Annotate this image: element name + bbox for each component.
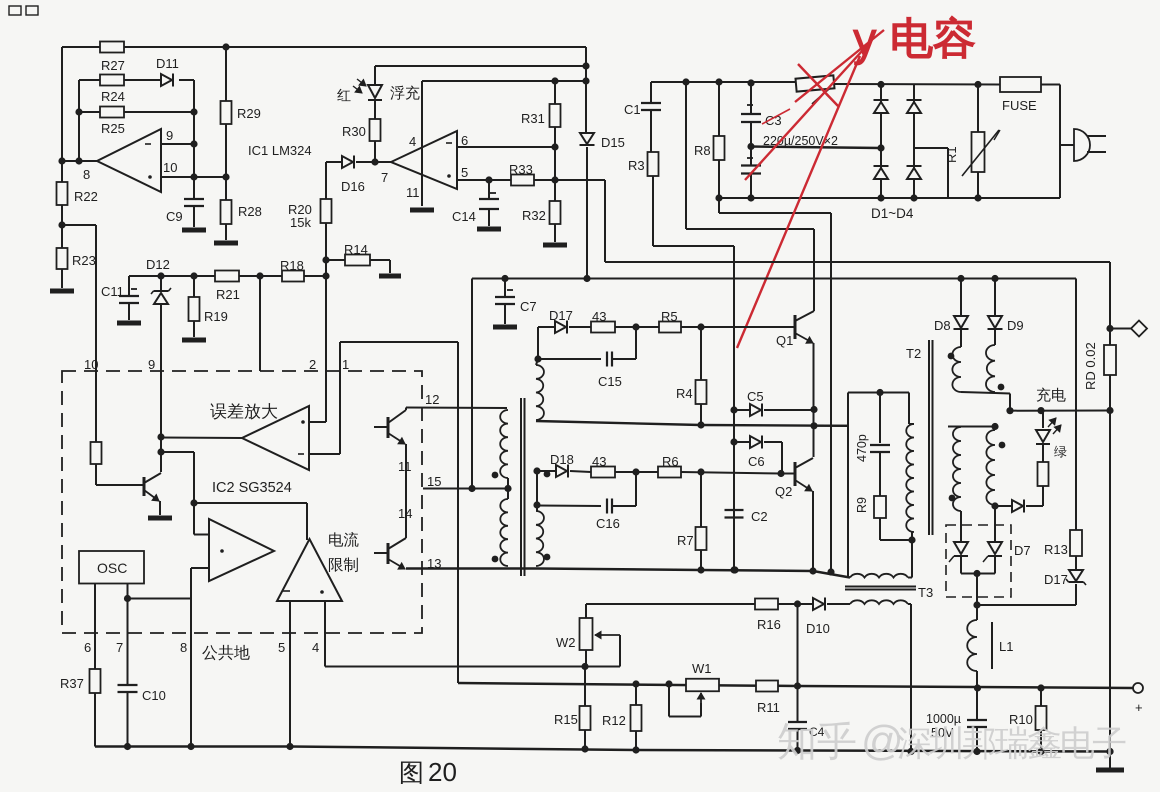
svg-text:C10: C10 — [142, 688, 166, 703]
svg-text:D15: D15 — [601, 135, 625, 150]
svg-text:D8: D8 — [934, 318, 951, 333]
svg-text:R32: R32 — [522, 208, 546, 223]
svg-text:C9: C9 — [166, 209, 183, 224]
svg-text:8: 8 — [180, 640, 187, 655]
svg-text:6: 6 — [461, 133, 468, 148]
svg-text:R10: R10 — [1009, 712, 1033, 727]
svg-text:R6: R6 — [662, 454, 679, 469]
svg-text:9: 9 — [148, 357, 155, 372]
svg-text:C16: C16 — [596, 516, 620, 531]
svg-text:C6: C6 — [748, 454, 765, 469]
svg-text:C2: C2 — [751, 509, 768, 524]
svg-text:4: 4 — [409, 134, 416, 149]
svg-text:50V: 50V — [931, 726, 954, 740]
svg-text:15: 15 — [427, 474, 441, 489]
svg-text:7: 7 — [381, 170, 388, 185]
svg-text:R21: R21 — [216, 287, 240, 302]
svg-text:C15: C15 — [598, 374, 622, 389]
svg-text:43: 43 — [592, 309, 606, 324]
svg-text:Q1: Q1 — [776, 333, 793, 348]
svg-text:1: 1 — [342, 357, 349, 372]
svg-text:R31: R31 — [521, 111, 545, 126]
svg-text:C7: C7 — [520, 299, 537, 314]
svg-text:R12: R12 — [602, 713, 626, 728]
svg-text:+: + — [1135, 700, 1143, 715]
svg-text:R18: R18 — [280, 258, 304, 273]
svg-text:11: 11 — [406, 185, 420, 200]
svg-text:D16: D16 — [341, 179, 365, 194]
svg-text:OSC: OSC — [97, 560, 127, 576]
svg-text:C14: C14 — [452, 209, 476, 224]
svg-text:R22: R22 — [74, 189, 98, 204]
svg-text:7: 7 — [116, 640, 123, 655]
svg-text:C11: C11 — [101, 284, 124, 299]
svg-text:R14: R14 — [344, 242, 368, 257]
svg-text:R1: R1 — [944, 146, 959, 163]
svg-text:5: 5 — [461, 165, 468, 180]
svg-text:T2: T2 — [906, 346, 921, 361]
svg-text:RD 0.02: RD 0.02 — [1083, 342, 1098, 390]
svg-text:C5: C5 — [747, 389, 764, 404]
svg-text:R16: R16 — [757, 617, 781, 632]
svg-text:D10: D10 — [806, 621, 830, 636]
svg-text:R19: R19 — [204, 309, 228, 324]
svg-text:R8: R8 — [694, 143, 711, 158]
svg-text:D12: D12 — [146, 257, 170, 272]
svg-text:2: 2 — [309, 357, 316, 372]
svg-text:6: 6 — [84, 640, 91, 655]
svg-text:43: 43 — [592, 454, 606, 469]
svg-text:C1: C1 — [624, 102, 641, 117]
svg-text:D1~D4: D1~D4 — [871, 206, 914, 221]
svg-text:R23: R23 — [72, 253, 96, 268]
svg-text:10: 10 — [163, 160, 177, 175]
svg-text:D7: D7 — [1014, 543, 1031, 558]
svg-text:T3: T3 — [918, 585, 933, 600]
svg-text:12: 12 — [425, 392, 439, 407]
svg-text:R3: R3 — [628, 158, 645, 173]
svg-text:R29: R29 — [237, 106, 261, 121]
svg-text:R25: R25 — [101, 121, 125, 136]
svg-text:9: 9 — [166, 128, 173, 143]
svg-text:5: 5 — [278, 640, 285, 655]
svg-text:11: 11 — [398, 459, 412, 474]
svg-text:IC1 LM324: IC1 LM324 — [248, 143, 312, 158]
svg-text:D9: D9 — [1007, 318, 1024, 333]
svg-text:13: 13 — [427, 556, 441, 571]
svg-text:8: 8 — [83, 167, 90, 182]
svg-text:R24: R24 — [101, 89, 125, 104]
svg-text:IC2 SG3524: IC2 SG3524 — [212, 480, 292, 496]
svg-text:R5: R5 — [661, 309, 678, 324]
svg-text:470p: 470p — [855, 434, 869, 462]
svg-text:@: @ — [861, 717, 904, 764]
svg-text:D17: D17 — [549, 308, 573, 323]
svg-text:1000µ: 1000µ — [926, 712, 961, 726]
svg-text:W2: W2 — [556, 635, 576, 650]
svg-text:FUSE: FUSE — [1002, 98, 1037, 113]
svg-text:R30: R30 — [342, 124, 366, 139]
svg-text:R11: R11 — [757, 700, 780, 715]
svg-text:4: 4 — [312, 640, 319, 655]
svg-text:Q2: Q2 — [775, 484, 792, 499]
svg-text:W1: W1 — [692, 661, 712, 676]
svg-text:R37: R37 — [60, 676, 84, 691]
svg-text:R27: R27 — [101, 58, 125, 73]
svg-text:D11: D11 — [156, 56, 179, 71]
svg-text:15k: 15k — [290, 215, 311, 230]
svg-text:14: 14 — [398, 506, 412, 521]
svg-text:R4: R4 — [676, 386, 693, 401]
svg-text:y: y — [853, 12, 877, 65]
svg-text:20: 20 — [428, 757, 457, 787]
svg-text:R13: R13 — [1044, 542, 1068, 557]
svg-text:R7: R7 — [677, 533, 694, 548]
svg-text:D18: D18 — [550, 452, 574, 467]
svg-text:R33: R33 — [509, 162, 533, 177]
svg-text:R9: R9 — [855, 497, 869, 513]
svg-text:L1: L1 — [999, 639, 1013, 654]
svg-text:R28: R28 — [238, 204, 262, 219]
svg-text:D17: D17 — [1044, 572, 1068, 587]
svg-text:R15: R15 — [554, 712, 578, 727]
